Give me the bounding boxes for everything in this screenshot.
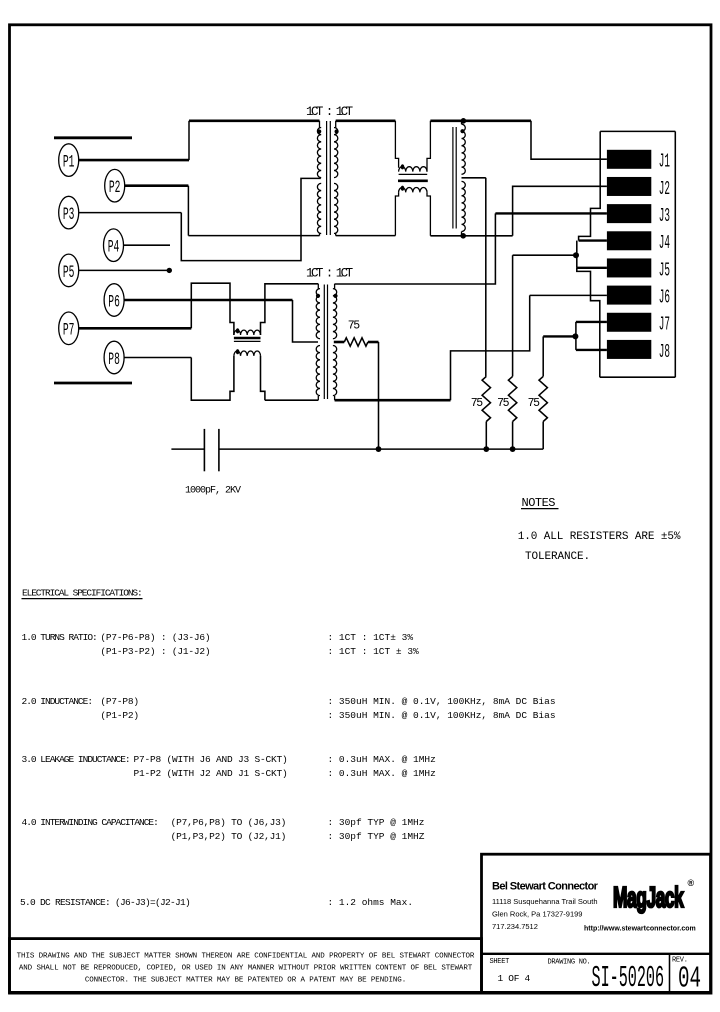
svg-text:J1: J1 [659,150,670,173]
svg-text:(P1,P3,P2) TO (J2,J1): (P1,P3,P2) TO (J2,J1) [171,831,287,842]
svg-text:MagJack: MagJack [613,882,684,913]
svg-text:Bel Stewart Connector: Bel Stewart Connector [492,881,599,893]
transformer T2 core [323,285,325,400]
jack pin pad J8 [607,340,651,359]
wire jack left edge jog upper [579,131,601,240]
transformer T1 primary winding [319,121,321,128]
wire T1 primary top rail [189,120,320,123]
resistor R4 75 ohm [334,341,345,344]
node bottom rail / L1 junction dot [460,233,466,239]
svg-text:5.0 DC RESISTANCE: (J6-J3)=(J2: 5.0 DC RESISTANCE: (J6-J3)=(J2-J1) [20,897,190,908]
svg-text:SHEET: SHEET [490,958,510,966]
svg-text:(P7-P6-P8) : (J3-J6): (P7-P6-P8) : (J3-J6) [100,632,210,643]
wire P5 stub [79,269,169,271]
svg-text:®: ® [688,878,695,888]
svg-text:NOTES: NOTES [522,496,556,510]
wire T2 secondary bottom rail [335,399,451,402]
wire CM1 lower right to bottom rail [427,192,430,235]
svg-text:P4: P4 [108,238,120,258]
wire P4 stub [124,244,171,246]
svg-text:P7-P8 (WITH J6 AND J3 S-CKT): P7-P8 (WITH J6 AND J3 S-CKT) [134,754,288,765]
wire J6 feed [530,294,607,296]
wire J4 feed [579,239,607,241]
svg-text:P5: P5 [63,263,75,283]
wire J5 feed [577,267,607,269]
resistor R3 75 ohm [539,376,547,421]
wire T2 secondary top to J3 [335,213,496,284]
port P8 [104,341,124,374]
wire P8 to L2 lower winding [124,357,191,359]
jack pin pad J5 [607,258,651,277]
svg-text:J2: J2 [659,177,670,200]
port P2 [105,169,125,202]
title block outline [482,854,711,992]
node J7/J8 junction dot [572,333,578,339]
wire R2 to J4/J5 node [513,254,576,256]
svg-text:3.0 LEAKAGE INDUCTANCE:: 3.0 LEAKAGE INDUCTANCE: [22,754,130,765]
svg-text:P1: P1 [63,153,75,173]
svg-text:Glen Rock, Pa 17327-9199: Glen Rock, Pa 17327-9199 [492,910,582,919]
svg-text:SI-50206: SI-50206 [592,962,665,996]
node R2 bottom junction dot [510,446,516,452]
wire CM1 upper right to top rail [427,121,430,172]
transformer T2 primary phase dot [316,294,320,298]
jack pin pad J3 [607,204,651,223]
node R4 bottom junction dot [376,446,382,452]
choke CM2 core [234,337,261,339]
resistor R1 75 ohm [482,376,490,421]
wire T1 primary bottom rail [188,235,319,237]
jack pin pad J7 [607,313,651,332]
wire R2 top lead [512,255,514,376]
svg-text:(P1-P3-P2) : (J1-J2): (P1-P3-P2) : (J1-J2) [100,646,210,657]
svg-text:: 1CT : 1CT± 3%: : 1CT : 1CT± 3% [328,632,414,643]
jack pin pad J6 [607,286,651,305]
wire J8 feed [576,349,607,351]
svg-text:: 1CT : 1CT ± 3%: : 1CT : 1CT ± 3% [328,646,420,657]
svg-text:: 350uH MIN. @ 0.1V, 100KHz, 8: : 350uH MIN. @ 0.1V, 100KHz, 8mA DC Bias [328,710,556,721]
svg-text:(P1-P2): (P1-P2) [100,710,139,721]
wire R3 to J7/J8 node [543,335,575,337]
choke CM1 upper phase dot [401,164,405,169]
svg-text:J5: J5 [659,259,670,282]
svg-text:DRAWING NO.: DRAWING NO. [548,959,591,967]
svg-text:1CT : 1CT: 1CT : 1CT [306,105,354,119]
svg-text:P8: P8 [108,350,120,370]
svg-text:1.0 ALL RESISTERS ARE ±5%: 1.0 ALL RESISTERS ARE ±5% [518,531,681,543]
wire CM2 lower right to T2 primary bottom [261,356,265,400]
svg-text:: 0.3uH MAX. @ 1MHz: : 0.3uH MAX. @ 1MHz [328,754,436,765]
port P3 [59,196,79,229]
svg-text:P2: P2 [109,178,121,198]
wire J3 feed [495,212,607,214]
svg-text:4.0 INTERWINDING CAPACITANCE:: 4.0 INTERWINDING CAPACITANCE: [22,817,158,828]
node top rail / L1 junction dot [461,118,467,124]
choke CM2 upper phase dot [236,328,240,333]
choke CM1 upper winding [399,167,427,172]
wire ground rail to capacitor [219,448,543,450]
wire J7 feed [576,321,607,323]
transformer T2 secondary winding [334,284,336,289]
svg-text:(P7-P8): (P7-P8) [100,696,139,707]
svg-text:: 1.2 ohms Max.: : 1.2 ohms Max. [328,897,414,908]
wire P2 to T1 primary bottom [125,184,189,187]
wire L1 center tap to resistor R1 [462,177,486,179]
transformer T1 secondary winding [335,121,337,128]
wire J2 net riser and feed [513,186,607,236]
svg-text:TOLERANCE.: TOLERANCE. [525,551,590,563]
wire top rail CM1 to J1 corner [430,120,531,123]
port P4 [104,229,124,262]
svg-text:J6: J6 [659,286,670,309]
svg-text:P3: P3 [63,205,75,225]
transformer T1 core [326,121,328,235]
svg-text:J4: J4 [659,232,670,255]
capacitor C1 1000pF [171,448,204,450]
inductor L1 winding [461,121,463,124]
bus bar top-left [54,136,132,139]
svg-text:04: 04 [678,961,701,996]
svg-text:: 350uH MIN. @ 0.1V, 100KHz, 8: : 350uH MIN. @ 0.1V, 100KHz, 8mA DC Bias [328,696,556,707]
node P5 end dot [167,268,172,273]
svg-text:1 OF 4: 1 OF 4 [498,973,531,984]
port P6 [104,284,124,317]
wire T1 secondary top to choke CM1 [336,120,396,123]
wire P6 to T2 primary center tap [124,299,293,302]
choke CM1 lower phase dot [401,186,405,191]
svg-text:ELECTRICAL SPECIFICATIONS:: ELECTRICAL SPECIFICATIONS: [22,587,142,598]
wire T2 secondary bottom to J6 [451,295,530,400]
wire J1 feed [531,121,607,159]
wire T2 primary bottom rail [265,399,318,401]
title block divider horizontal [482,953,711,955]
svg-text:AND SHALL NOT BE REPRODUCED, C: AND SHALL NOT BE REPRODUCED, COPIED, OR … [19,965,473,973]
svg-text:1000pF, 2KV: 1000pF, 2KV [185,485,241,496]
node R1 bottom junction dot [483,446,489,452]
wire jack left edge jog lower [577,268,600,377]
node J4/J5 junction dot [573,252,579,258]
svg-text:http://www.stewartconnector.co: http://www.stewartconnector.com [584,926,696,933]
bus bar bottom-left [54,382,132,385]
connector jack J outline [600,130,675,132]
disclaimer box [10,939,482,993]
svg-text:1.0 TURNS RATIO:: 1.0 TURNS RATIO: [22,632,97,643]
port P7 [59,312,79,345]
svg-text:P1-P2 (WITH J2 AND J1 S-CKT): P1-P2 (WITH J2 AND J1 S-CKT) [134,768,288,779]
svg-text:75: 75 [348,319,361,332]
choke CM1 core [399,173,428,175]
wire P7 to L2 upper winding [79,327,192,330]
svg-text:THIS DRAWING AND THE SUBJECT M: THIS DRAWING AND THE SUBJECT MATTER SHOW… [17,953,475,961]
svg-text:P6: P6 [108,293,120,313]
jack pin pad J4 [607,231,651,250]
port P1 [59,144,79,177]
svg-text:717.234.7512: 717.234.7512 [492,922,538,931]
svg-text:75: 75 [471,397,484,410]
choke CM2 upper winding [234,330,261,335]
wire J4-J5 tie [576,241,578,268]
svg-text:1CT : 1CT: 1CT : 1CT [306,267,354,281]
svg-text:75: 75 [497,397,510,410]
inductor L1 phase dot [460,129,464,133]
choke CM2 lower winding [234,351,261,356]
svg-text:: 0.3uH MAX. @ 1MHz: : 0.3uH MAX. @ 1MHz [328,768,436,779]
svg-text:J7: J7 [659,313,670,336]
choke CM2 lower phase dot [236,349,240,354]
jack pin pad J2 [607,177,651,196]
wire P3 to T1 primary center tap [79,212,182,214]
transformer T1 secondary phase dot [335,129,339,133]
transformer T2 secondary phase dot [333,294,337,298]
svg-text:J3: J3 [659,204,670,227]
port P5 [59,254,79,287]
svg-text:(P7,P6,P8) TO (J6,J3): (P7,P6,P8) TO (J6,J3) [171,817,287,828]
svg-text:11118 Susquehanna Trail South: 11118 Susquehanna Trail South [492,897,598,906]
wire T1 secondary bottom to choke CM1 [336,235,396,237]
svg-text:J8: J8 [659,340,670,363]
svg-text:P7: P7 [63,321,75,341]
wire bottom rail L1 to J2 riser [430,235,512,237]
svg-text:CONNECTOR. THE SUBJECT MATTER: CONNECTOR. THE SUBJECT MATTER MAY BE PAT… [85,977,406,985]
svg-text:: 30pf TYP @ 1MHZ: : 30pf TYP @ 1MHZ [328,831,425,842]
inductor L1 core [452,127,454,229]
transformer T1 primary phase dot [317,129,321,133]
svg-text:2.0 INDUCTANCE:: 2.0 INDUCTANCE: [22,696,93,707]
wire CM2 upper right to T2 primary top [261,284,319,335]
resistor R2 75 ohm [508,376,516,421]
svg-text:75: 75 [528,397,541,410]
transformer T2 primary winding [317,284,319,289]
jack pin pad J1 [607,150,651,169]
choke CM1 lower winding [399,187,427,192]
wire J7-J8 tie [575,322,577,350]
wire P1 to T1 primary top [79,159,190,162]
svg-text:: 30pf TYP @ 1MHz: : 30pf TYP @ 1MHz [328,817,425,828]
title block divider vertical rev [669,954,671,993]
